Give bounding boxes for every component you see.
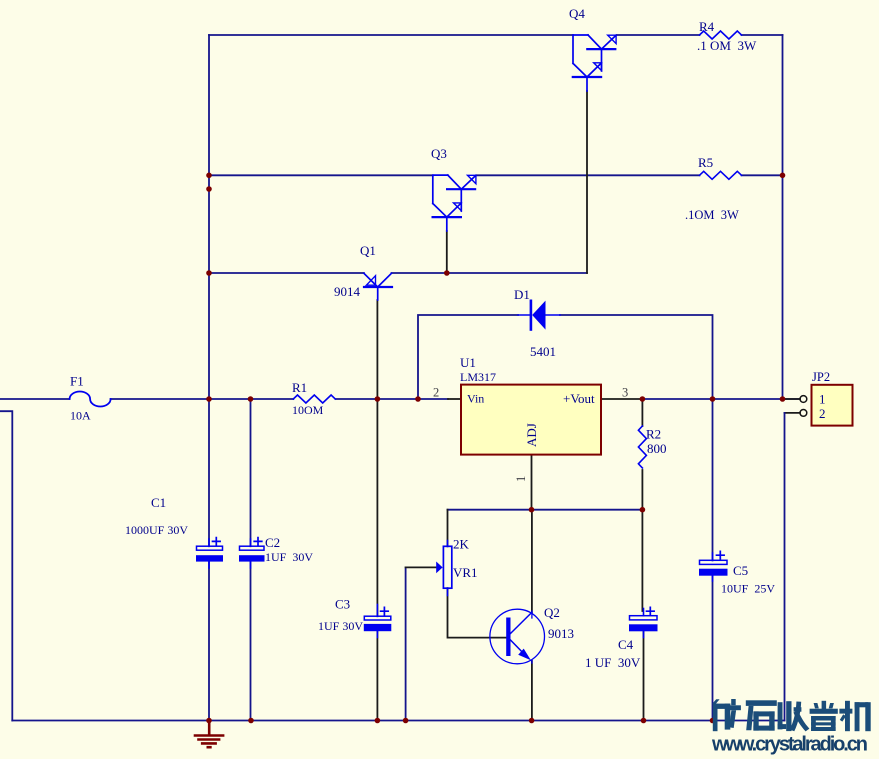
wire left bus below C1: [208, 561, 210, 720]
svg-text:2: 2: [819, 406, 826, 421]
svg-text:R5: R5: [698, 155, 713, 170]
svg-text:VR1: VR1: [453, 565, 478, 580]
svg-text:9013: 9013: [548, 626, 574, 641]
wire Q3 collector drop: [446, 231, 448, 273]
ground: [195, 721, 223, 747]
wire R4 to right bus corner: [742, 34, 783, 36]
svg-text:U1: U1: [460, 355, 476, 370]
connector JP2: [800, 385, 853, 426]
wire bottom bus: [12, 720, 784, 722]
svg-text:10OM: 10OM: [292, 403, 324, 417]
svg-text:1UF 30V: 1UF 30V: [265, 550, 313, 564]
svg-text:C4: C4: [618, 637, 634, 652]
svg-text:C5: C5: [733, 563, 748, 578]
svg-text:C2: C2: [265, 535, 280, 550]
svg-text:.1 OM 3W: .1 OM 3W: [697, 38, 757, 53]
svg-text:www.crystalradio.cn: www.crystalradio.cn: [711, 734, 867, 756]
wire output line left: [0, 398, 70, 400]
resistor R1: [293, 395, 335, 403]
wire U1 Vin pin stub: [448, 398, 461, 400]
wire left return drop: [0, 411, 12, 720]
wire R2 bottom lead: [641, 470, 643, 510]
wire VR1 wiper horizontal: [406, 566, 437, 568]
wire VR1 bottom lead to Q2 base: [448, 588, 507, 637]
transistor Q3: [433, 175, 476, 231]
wire left bus vertical: [208, 35, 210, 546]
wire ADJ net horizontal: [448, 509, 643, 511]
wire third rail Q1 to corner: [392, 272, 588, 274]
wire Q2 emitter to bus: [531, 661, 533, 721]
svg-text:ADJ: ADJ: [524, 423, 539, 447]
capacitor C5: [700, 551, 728, 581]
diode D1: [518, 301, 560, 330]
F1 fuse: [70, 391, 111, 406]
svg-text:F1: F1: [70, 374, 84, 389]
svg-text:10UF 25V: 10UF 25V: [721, 582, 775, 596]
svg-text:C3: C3: [335, 597, 350, 612]
capacitor C1: [197, 538, 223, 568]
svg-text:JP2: JP2: [812, 370, 830, 384]
wire R1 to U1: [336, 398, 449, 400]
svg-text:1 UF 30V: 1 UF 30V: [585, 655, 641, 670]
svg-text:+Vout: +Vout: [563, 391, 595, 406]
wire second rail Q3 to R5: [477, 174, 700, 176]
transistor Q4: [573, 35, 616, 91]
wire second rail left: [209, 174, 433, 176]
svg-text:9014: 9014: [334, 284, 361, 299]
wire R5 to right bus: [742, 174, 783, 176]
wire D1 loop left: [418, 315, 518, 399]
wire Q1 base column: [376, 300, 378, 616]
svg-text:3: 3: [622, 386, 628, 400]
wire C5 branch: [712, 399, 714, 560]
resistor R5: [700, 171, 742, 179]
wire top rail right of Q4: [617, 34, 700, 36]
wire third rail left: [209, 272, 364, 274]
svg-text:1: 1: [819, 392, 826, 407]
transistor Q2: [490, 609, 545, 664]
glyph yin: [810, 701, 838, 731]
svg-text:Q2: Q2: [544, 605, 560, 620]
svg-text:1UF 30V: 1UF 30V: [318, 619, 363, 633]
wire JP2 pin2 drop: [784, 413, 786, 721]
svg-text:R4: R4: [699, 19, 715, 34]
wire C4 bottom lead: [643, 631, 645, 721]
wire C3 bottom lead: [376, 631, 378, 721]
wire ADJ net to Q2 collector: [531, 510, 533, 613]
svg-text:5401: 5401: [530, 344, 556, 359]
svg-text:C1: C1: [151, 495, 166, 510]
svg-text:LM317: LM317: [460, 370, 496, 384]
wire C5 bottom lead: [712, 575, 714, 720]
svg-text:Q3: Q3: [431, 146, 447, 161]
svg-text:2: 2: [433, 386, 439, 400]
svg-text:1000UF 30V: 1000UF 30V: [125, 523, 188, 537]
transistor Q1: [364, 273, 392, 300]
svg-text:R1: R1: [292, 380, 307, 395]
wire JP2 pin2 stub: [785, 412, 801, 414]
glyph shou: [778, 701, 810, 731]
resistor R2: [638, 426, 646, 468]
wire R2 to C4: [641, 510, 643, 611]
svg-text:Vin: Vin: [467, 392, 484, 406]
wire C2 branch upper: [250, 399, 252, 546]
wire Q4 collector drop: [586, 91, 588, 273]
wire VR1 top lead: [447, 510, 449, 547]
svg-text:Q1: Q1: [360, 243, 376, 258]
svg-text:1: 1: [514, 476, 528, 482]
resistor R4: [700, 31, 742, 39]
svg-text:2K: 2K: [453, 537, 470, 552]
wire D1 loop right: [560, 315, 713, 399]
glyph kuang: [712, 699, 741, 731]
watermark logo: [711, 699, 871, 756]
svg-text:Q4: Q4: [569, 6, 585, 21]
capacitor C2: [240, 538, 265, 568]
potentiometer VR1: [436, 541, 452, 596]
wire output line right: [642, 398, 800, 400]
wire R2 top lead: [641, 399, 643, 426]
svg-text:.1OM 3W: .1OM 3W: [685, 208, 739, 222]
svg-text:10A: 10A: [70, 409, 91, 423]
glyph shi: [746, 700, 777, 730]
wire ADJ pin stem: [531, 455, 533, 510]
svg-text:800: 800: [647, 441, 667, 456]
wire C2 branch lower: [250, 561, 252, 720]
wire right bus vertical: [782, 35, 784, 399]
wire U1 Vout pin stub: [601, 398, 642, 400]
glyph ji: [839, 701, 870, 731]
IC U1 LM317: [461, 385, 601, 455]
svg-text:D1: D1: [514, 287, 530, 302]
svg-text:R2: R2: [646, 427, 661, 442]
wire JP2 pin1 stub: [783, 398, 801, 400]
wire VR1 wiper drop: [405, 567, 407, 720]
wire F1 to R1: [111, 398, 294, 400]
wire top rail left: [209, 34, 573, 36]
capacitor C4: [630, 607, 658, 637]
capacitor C3: [364, 605, 391, 638]
